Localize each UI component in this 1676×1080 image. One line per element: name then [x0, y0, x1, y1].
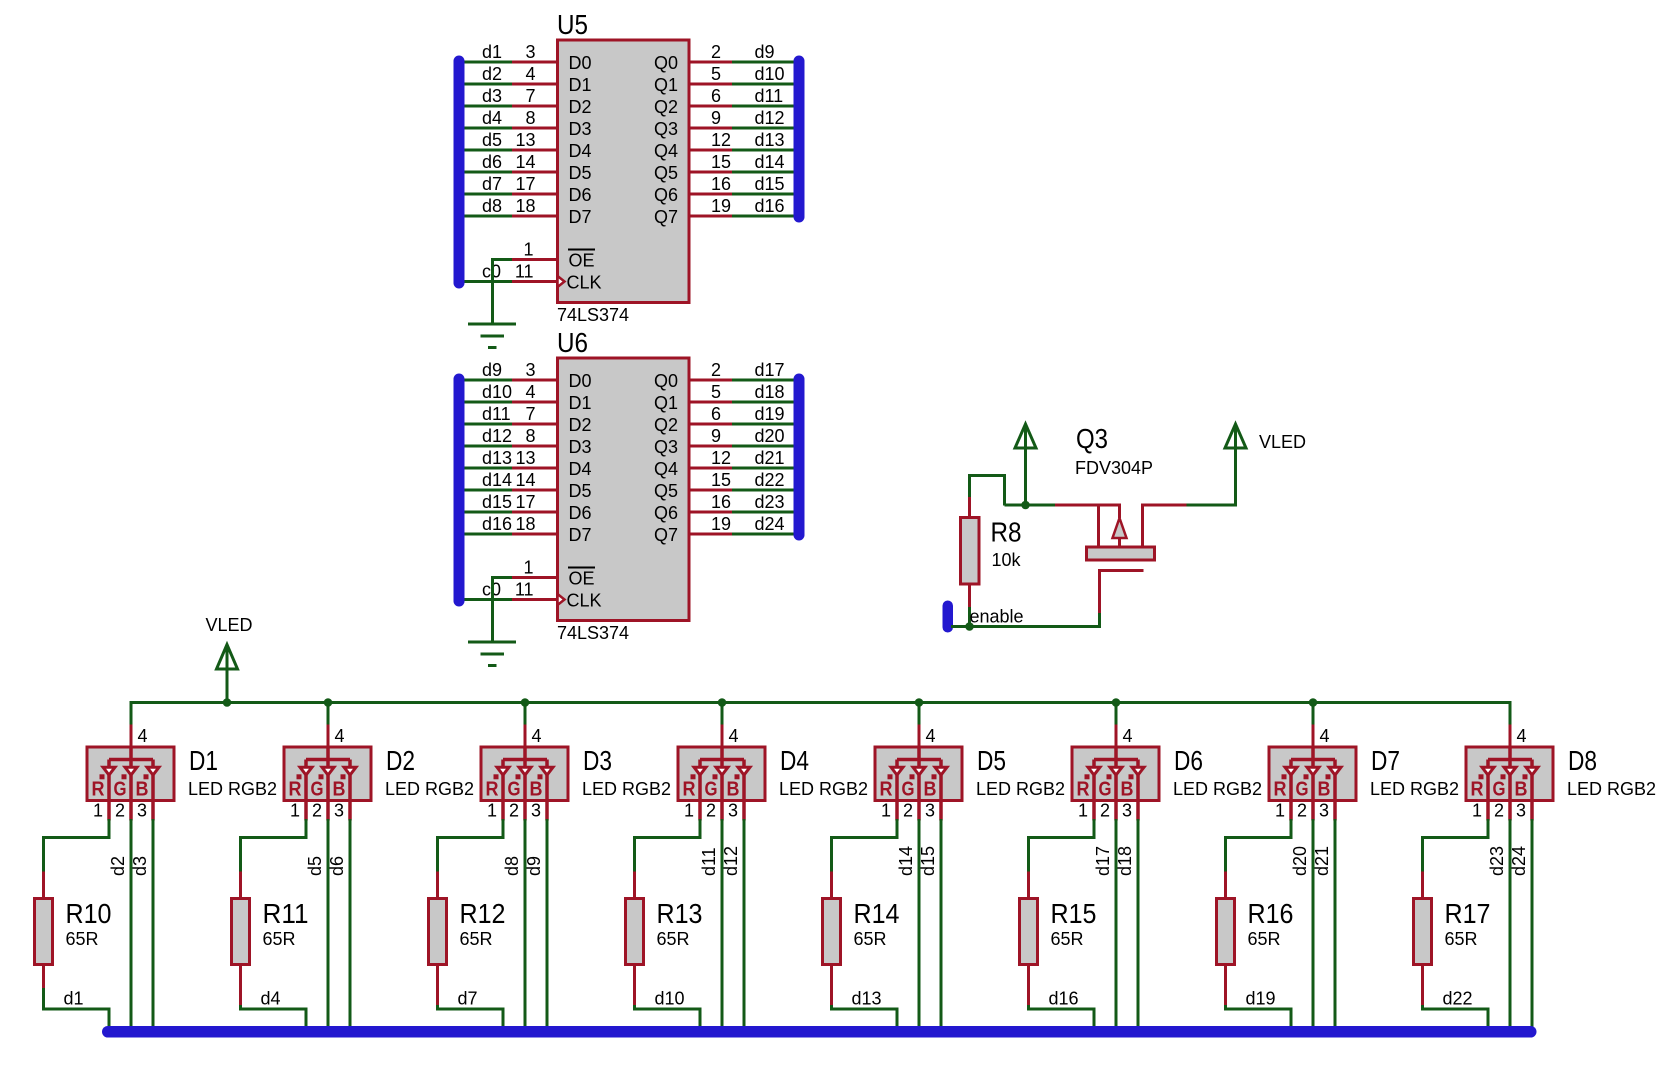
net label d7: [458, 989, 478, 1009]
svg-text:R11: R11: [263, 898, 309, 929]
svg-text:4: 4: [729, 726, 739, 746]
svg-text:D1: D1: [189, 745, 218, 776]
svg-text:R: R: [486, 779, 499, 801]
wire D5 pin3 to bus d15: [940, 819, 943, 1028]
svg-text:18: 18: [515, 196, 535, 216]
svg-text:d10: d10: [482, 382, 512, 402]
svg-text:1: 1: [1472, 801, 1482, 821]
U5 pin 8 D3 wire d4: [464, 108, 592, 139]
svg-text:CLK: CLK: [567, 591, 602, 611]
label D8: [1568, 745, 1597, 776]
svg-text:6: 6: [711, 86, 721, 106]
svg-text:B: B: [924, 779, 937, 801]
net label d9: [524, 856, 544, 876]
svg-text:1: 1: [1078, 801, 1088, 821]
resistor R14 body: [823, 872, 841, 1006]
svg-text:1: 1: [523, 558, 533, 578]
value 65R of R12: [460, 929, 493, 949]
svg-text:d18: d18: [755, 382, 785, 402]
svg-text:LED RGB2: LED RGB2: [188, 779, 277, 799]
svg-text:3: 3: [728, 801, 738, 821]
svg-text:13: 13: [515, 448, 535, 468]
svg-text:65R: 65R: [1248, 929, 1281, 949]
svg-text:d9: d9: [524, 856, 544, 876]
U5 pin 2 Q0 wire d9: [654, 42, 794, 73]
svg-text:Q6: Q6: [654, 503, 678, 523]
svg-text:D5: D5: [569, 481, 592, 501]
net label d8: [502, 856, 522, 876]
label D5: [977, 745, 1006, 776]
wire R17 to bus d22: [1423, 1005, 1489, 1027]
wire D6 pin2 to bus d17: [1115, 819, 1118, 1028]
label D2: [386, 745, 415, 776]
svg-text:D2: D2: [569, 415, 592, 435]
U6 pin 13 D4 wire d13: [464, 448, 592, 479]
svg-text:Q1: Q1: [654, 393, 678, 413]
svg-text:CLK: CLK: [567, 273, 602, 293]
label D7: [1371, 745, 1400, 776]
svg-text:65R: 65R: [854, 929, 887, 949]
svg-text:4: 4: [1320, 726, 1330, 746]
wire R13 to bus d10: [635, 1005, 701, 1027]
svg-text:Q0: Q0: [654, 53, 678, 73]
net label d17: [1093, 846, 1113, 876]
svg-text:D0: D0: [569, 371, 592, 391]
net label VLED bottom-left: [205, 615, 252, 635]
svg-text:Q2: Q2: [654, 415, 678, 435]
U5 pin 16 Q6 wire d15: [654, 174, 794, 205]
junction at R8/Q3 gate rail: [1021, 501, 1030, 510]
U6 pin 6 Q2 wire d19: [654, 404, 794, 435]
pin number 4 of D6: [1123, 726, 1133, 746]
U6 pin 8 D3 wire d12: [464, 426, 592, 457]
power symbol VLED right: [1187, 424, 1247, 507]
svg-text:d16: d16: [755, 196, 785, 216]
svg-text:D7: D7: [569, 525, 592, 545]
pin number 4 of D4: [729, 726, 739, 746]
svg-text:D3: D3: [583, 745, 612, 776]
bus right of U5: [794, 56, 805, 223]
svg-text:LED RGB2: LED RGB2: [1567, 779, 1656, 799]
svg-text:3: 3: [531, 801, 541, 821]
svg-text:Q3: Q3: [1076, 423, 1108, 454]
svg-text:74LS374: 74LS374: [557, 623, 629, 643]
svg-text:LED RGB2: LED RGB2: [582, 779, 671, 799]
svg-text:D3: D3: [569, 119, 592, 139]
svg-text:Q7: Q7: [654, 207, 678, 227]
svg-text:D1: D1: [569, 393, 592, 413]
svg-text:2: 2: [1494, 801, 1504, 821]
value LED RGB2 of D5: [976, 779, 1065, 799]
net label d6: [327, 856, 347, 876]
svg-text:7: 7: [525, 404, 535, 424]
bus right of U6: [794, 374, 805, 541]
svg-text:d3: d3: [482, 86, 502, 106]
U6 pin 7 D2 wire d11: [464, 404, 592, 435]
value 65R of R11: [263, 929, 296, 949]
svg-text:D2: D2: [569, 97, 592, 117]
U6 pin 16 Q6 wire d23: [654, 492, 794, 523]
svg-text:2: 2: [115, 801, 125, 821]
svg-text:B: B: [727, 779, 740, 801]
junction on rail above D2: [324, 698, 333, 707]
net label d18: [1115, 846, 1135, 876]
svg-text:3: 3: [1122, 801, 1132, 821]
svg-text:d14: d14: [755, 152, 785, 172]
junction VLED arrow on rail: [223, 698, 232, 707]
net label c0 at U6: [482, 580, 501, 600]
U6 pin 15 Q5 wire d22: [654, 470, 794, 501]
U5 pin 4 D1 wire d2: [464, 64, 592, 95]
value 65R of R10: [66, 929, 99, 949]
svg-text:2: 2: [711, 42, 721, 62]
value LED RGB2 of D2: [385, 779, 474, 799]
svg-text:G: G: [705, 779, 718, 801]
U6 pin 3 D0 wire d9: [464, 360, 592, 391]
wire R12 to bus d7: [438, 1005, 504, 1027]
svg-text:d12: d12: [482, 426, 512, 446]
svg-text:d13: d13: [482, 448, 512, 468]
U5 pin 5 Q1 wire d10: [654, 64, 794, 95]
svg-text:d24: d24: [1509, 846, 1529, 876]
svg-text:Q5: Q5: [654, 163, 678, 183]
svg-text:d16: d16: [1049, 989, 1079, 1009]
svg-text:LED RGB2: LED RGB2: [1370, 779, 1459, 799]
svg-text:3: 3: [1516, 801, 1526, 821]
svg-text:Q0: Q0: [654, 371, 678, 391]
svg-text:d7: d7: [482, 174, 502, 194]
svg-text:1: 1: [93, 801, 103, 821]
value LED RGB2 of D3: [582, 779, 671, 799]
wire D7 pin3 to bus d21: [1334, 819, 1337, 1028]
svg-text:2: 2: [1297, 801, 1307, 821]
wire OE of U6 to ground: [491, 576, 494, 642]
label D4: [780, 745, 809, 776]
label R17: [1445, 898, 1491, 929]
wire D8 pin3 to bus d24: [1531, 819, 1534, 1028]
svg-text:d16: d16: [482, 514, 512, 534]
svg-text:d19: d19: [755, 404, 785, 424]
label D6: [1174, 745, 1203, 776]
svg-text:d10: d10: [655, 989, 685, 1009]
svg-text:D4: D4: [569, 141, 592, 161]
U6 pin 1 OE: [491, 558, 595, 589]
net label d20: [1290, 846, 1310, 876]
U6 pin 14 D5 wire d14: [464, 470, 592, 501]
svg-text:2: 2: [312, 801, 322, 821]
svg-text:D4: D4: [569, 459, 592, 479]
transistor Q3 FDV304P: [1055, 504, 1187, 614]
value LED RGB2 of D6: [1173, 779, 1262, 799]
U5 pin 11 CLK wire c0: [464, 262, 602, 293]
svg-text:17: 17: [515, 174, 535, 194]
net label d16: [1049, 989, 1079, 1009]
svg-text:d19: d19: [1246, 989, 1276, 1009]
svg-text:d5: d5: [305, 856, 325, 876]
value 65R of R14: [854, 929, 887, 949]
svg-text:3: 3: [1319, 801, 1329, 821]
net label d5: [305, 856, 325, 876]
wire rail to D3 pin 4: [524, 701, 527, 747]
svg-text:d6: d6: [482, 152, 502, 172]
svg-text:R8: R8: [991, 517, 1022, 548]
resistor R15 body: [1020, 872, 1038, 1006]
svg-text:d10: d10: [755, 64, 785, 84]
svg-text:12: 12: [711, 130, 731, 150]
wire rail to D7 pin 4: [1312, 701, 1315, 747]
svg-text:G: G: [508, 779, 521, 801]
bus bottom: [102, 1026, 1537, 1038]
U5 pin 9 Q3 wire d12: [654, 108, 794, 139]
svg-text:D0: D0: [569, 53, 592, 73]
resistor R13 body: [626, 872, 644, 1006]
svg-text:3: 3: [334, 801, 344, 821]
svg-text:d12: d12: [755, 108, 785, 128]
svg-text:d15: d15: [755, 174, 785, 194]
power symbol VLED bottom-left: [217, 645, 238, 705]
svg-text:enable: enable: [970, 607, 1024, 627]
value LED RGB2 of D7: [1370, 779, 1459, 799]
resistor R16 body: [1217, 872, 1235, 1006]
wire D3 pin1 to R12: [438, 819, 504, 872]
wire R15 to bus d16: [1029, 1005, 1095, 1027]
svg-text:19: 19: [711, 514, 731, 534]
svg-text:d23: d23: [755, 492, 785, 512]
U5 pin 7 D2 wire d3: [464, 86, 592, 117]
svg-text:R17: R17: [1445, 898, 1491, 929]
svg-text:2: 2: [1100, 801, 1110, 821]
U5 pin 14 D5 wire d6: [464, 152, 592, 183]
svg-text:d23: d23: [1487, 846, 1507, 876]
svg-text:d18: d18: [1115, 846, 1135, 876]
svg-text:65R: 65R: [66, 929, 99, 949]
pin numbers 1 2 3 of D7: [1275, 801, 1329, 821]
wire D2 pin2 to bus d5: [327, 819, 330, 1028]
svg-text:65R: 65R: [1051, 929, 1084, 949]
svg-text:D3: D3: [569, 437, 592, 457]
pin numbers 1 2 3 of D5: [881, 801, 935, 821]
U6 pin 4 D1 wire d10: [464, 382, 592, 413]
U5 pin 18 D7 wire d8: [464, 196, 592, 227]
value 65R of R13: [657, 929, 690, 949]
junction at R8 bottom / enable: [965, 622, 974, 631]
wire D2 pin3 to bus d6: [349, 819, 352, 1028]
junction on rail above D5: [915, 698, 924, 707]
svg-text:OE: OE: [569, 569, 595, 589]
wire D3 pin3 to bus d9: [546, 819, 549, 1028]
svg-text:R12: R12: [460, 898, 506, 929]
LED D4 (RGB) body: [678, 747, 765, 821]
net label d24: [1509, 846, 1529, 876]
svg-text:1: 1: [1275, 801, 1285, 821]
svg-text:19: 19: [711, 196, 731, 216]
svg-text:D4: D4: [780, 745, 809, 776]
svg-text:d6: d6: [327, 856, 347, 876]
svg-text:d15: d15: [482, 492, 512, 512]
svg-text:d1: d1: [64, 989, 84, 1009]
svg-text:D6: D6: [569, 185, 592, 205]
svg-text:10k: 10k: [992, 550, 1022, 570]
resistor R11 body: [232, 872, 250, 1006]
LED D6 (RGB) body: [1072, 747, 1159, 821]
value 74LS374 of U5: [557, 305, 629, 325]
wire enable to Q3 gate: [951, 613, 1100, 628]
label R16: [1248, 898, 1294, 929]
svg-text:d17: d17: [1093, 846, 1113, 876]
junction on rail above D4: [718, 698, 727, 707]
value LED RGB2 of D8: [1567, 779, 1656, 799]
net label d22: [1443, 989, 1473, 1009]
wire VLED rail: [130, 701, 1512, 704]
resistor R8 body: [961, 497, 980, 628]
wire D1 pin3 to bus d3: [152, 819, 155, 1028]
U6 pin 17 D6 wire d15: [464, 492, 592, 523]
svg-text:5: 5: [711, 64, 721, 84]
label Q3: [1076, 423, 1108, 454]
label R10: [66, 898, 112, 929]
svg-text:LED RGB2: LED RGB2: [976, 779, 1065, 799]
svg-text:13: 13: [515, 130, 535, 150]
svg-text:G: G: [311, 779, 324, 801]
wire D3 pin2 to bus d8: [524, 819, 527, 1028]
svg-text:15: 15: [711, 470, 731, 490]
svg-text:OE: OE: [569, 251, 595, 271]
svg-text:d14: d14: [482, 470, 512, 490]
svg-text:4: 4: [532, 726, 542, 746]
svg-text:d20: d20: [755, 426, 785, 446]
LED D5 (RGB) body: [875, 747, 962, 821]
net label d21: [1312, 846, 1332, 876]
svg-text:d9: d9: [482, 360, 502, 380]
svg-text:D2: D2: [386, 745, 415, 776]
wire D6 pin3 to bus d18: [1137, 819, 1140, 1028]
svg-text:B: B: [136, 779, 149, 801]
svg-text:Q5: Q5: [654, 481, 678, 501]
U5 pin 13 D4 wire d5: [464, 130, 592, 161]
value 65R of R17: [1445, 929, 1478, 949]
svg-text:1: 1: [881, 801, 891, 821]
svg-text:12: 12: [711, 448, 731, 468]
svg-text:D5: D5: [569, 163, 592, 183]
LED D8 (RGB) body: [1466, 747, 1553, 821]
svg-text:d2: d2: [482, 64, 502, 84]
svg-text:G: G: [1493, 779, 1506, 801]
LED D1 (RGB) body: [87, 747, 174, 821]
svg-text:5: 5: [711, 382, 721, 402]
svg-text:R: R: [1274, 779, 1287, 801]
svg-text:B: B: [1515, 779, 1528, 801]
svg-text:D6: D6: [569, 503, 592, 523]
wire D4 pin3 to bus d12: [743, 819, 746, 1028]
U6 pin 9 Q3 wire d20: [654, 426, 794, 457]
net label d13: [852, 989, 882, 1009]
svg-text:d8: d8: [502, 856, 522, 876]
wire D1 pin1 to R10: [44, 819, 110, 872]
junction on rail above D7: [1309, 698, 1318, 707]
svg-text:Q2: Q2: [654, 97, 678, 117]
bus left of U6: [454, 374, 465, 607]
svg-text:4: 4: [926, 726, 936, 746]
svg-text:D8: D8: [1568, 745, 1597, 776]
svg-text:G: G: [902, 779, 915, 801]
svg-text:R: R: [289, 779, 302, 801]
svg-text:65R: 65R: [460, 929, 493, 949]
net label d3: [130, 856, 150, 876]
svg-text:d8: d8: [482, 196, 502, 216]
LED D3 (RGB) body: [481, 747, 568, 821]
svg-text:d4: d4: [261, 989, 281, 1009]
pin number 4 of D7: [1320, 726, 1330, 746]
svg-text:LED RGB2: LED RGB2: [385, 779, 474, 799]
U5 pin 3 D0 wire d1: [464, 42, 592, 73]
svg-text:R15: R15: [1051, 898, 1097, 929]
svg-text:8: 8: [525, 108, 535, 128]
net label d10: [655, 989, 685, 1009]
label R15: [1051, 898, 1097, 929]
label D1: [189, 745, 218, 776]
svg-text:d12: d12: [721, 846, 741, 876]
svg-text:1: 1: [523, 240, 533, 260]
svg-text:R: R: [1077, 779, 1090, 801]
wire D6 pin1 to R15: [1029, 819, 1095, 872]
power symbol (+V) above Q3: [1015, 424, 1036, 507]
wire R10 to bus d1: [44, 988, 110, 1027]
U5 pin 1 OE: [491, 240, 595, 271]
svg-text:U5: U5: [557, 9, 588, 40]
IC U6 74LS374 body: [558, 358, 690, 621]
svg-text:D6: D6: [1174, 745, 1203, 776]
svg-text:D5: D5: [977, 745, 1006, 776]
svg-text:R13: R13: [657, 898, 703, 929]
svg-text:B: B: [1121, 779, 1134, 801]
wire rail to D6 pin 4: [1115, 701, 1118, 747]
ground below U6: [468, 642, 516, 666]
U6 pin 19 Q7 wire d24: [654, 514, 794, 545]
svg-text:4: 4: [525, 64, 535, 84]
net label d11: [699, 847, 719, 876]
value 65R of R15: [1051, 929, 1084, 949]
svg-text:B: B: [1318, 779, 1331, 801]
U6 pin 11 CLK wire c0: [464, 580, 602, 611]
svg-text:d21: d21: [755, 448, 785, 468]
svg-text:Q4: Q4: [654, 459, 678, 479]
label R12: [460, 898, 506, 929]
svg-text:Q3: Q3: [654, 119, 678, 139]
svg-text:d13: d13: [755, 130, 785, 150]
svg-text:1: 1: [487, 801, 497, 821]
wire D1 pin2 to bus d2: [130, 819, 133, 1028]
label R8: [991, 517, 1022, 548]
svg-text:3: 3: [525, 42, 535, 62]
svg-text:d11: d11: [482, 404, 511, 424]
U6 pin 18 D7 wire d16: [464, 514, 592, 545]
svg-text:d24: d24: [755, 514, 785, 534]
svg-text:2: 2: [509, 801, 519, 821]
svg-text:2: 2: [706, 801, 716, 821]
svg-text:LED RGB2: LED RGB2: [1173, 779, 1262, 799]
wire D7 pin1 to R16: [1226, 819, 1292, 872]
svg-text:16: 16: [711, 492, 731, 512]
junction on rail above D3: [521, 698, 530, 707]
terminal enable (blue stub): [943, 601, 954, 633]
svg-text:65R: 65R: [1445, 929, 1478, 949]
U6 pin 12 Q4 wire d21: [654, 448, 794, 479]
svg-text:D7: D7: [1371, 745, 1400, 776]
net label d19: [1246, 989, 1276, 1009]
svg-text:G: G: [1296, 779, 1309, 801]
svg-text:R: R: [92, 779, 105, 801]
wire rail to D4 pin 4: [721, 701, 724, 747]
